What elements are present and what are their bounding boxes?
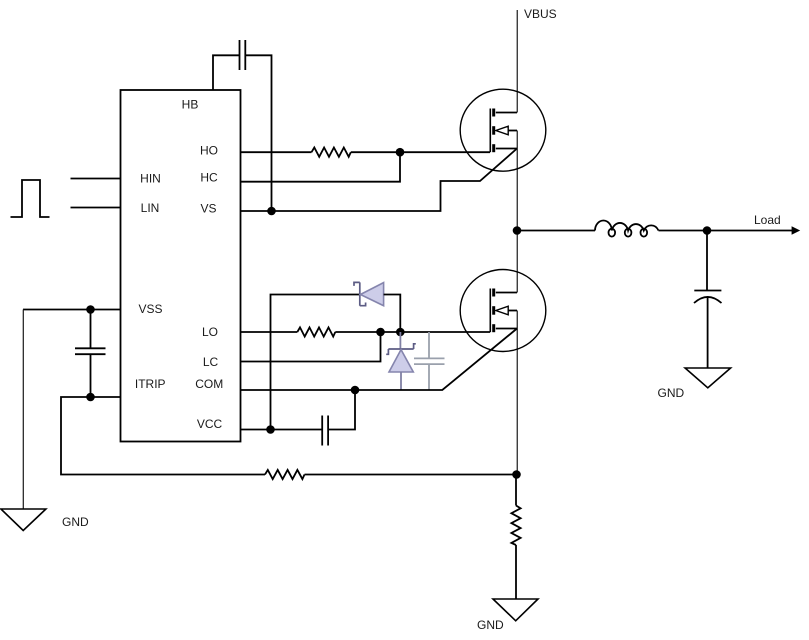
ground symbol left: [1, 509, 46, 531]
svg-text:HO: HO: [200, 143, 218, 157]
svg-text:HIN: HIN: [140, 171, 161, 185]
node half-bridge output junction: [513, 226, 522, 235]
wire VSS to ground left (gray): [22, 310, 24, 510]
wire COM to Q2 source: [241, 329, 518, 391]
wire gate resistor to Q2 gate: [335, 331, 490, 333]
transistor Q1 high-side MOSFET: [460, 89, 546, 171]
node COM junction: [351, 386, 360, 395]
resistor R4 shunt: [511, 506, 520, 546]
wire output capacitor to ground: [707, 297, 709, 368]
inductor L1: [595, 221, 659, 237]
wire inductor to load node: [659, 230, 708, 232]
wire HB to bootstrap capacitor: [213, 55, 240, 90]
wire HO to gate resistor: [241, 151, 312, 153]
svg-text:ITRIP: ITRIP: [135, 377, 166, 391]
capacitor C5 VSS filter: [75, 348, 106, 354]
wire HC to HO junction: [241, 152, 401, 182]
svg-text:COM: COM: [195, 377, 223, 391]
capacitor C3 snubber (gray): [414, 332, 445, 390]
resistor R3 current sense feed: [265, 470, 305, 479]
node LO-LC junction: [376, 328, 385, 337]
wire VCC capacitor to COM junction: [328, 390, 355, 430]
wire load node to output capacitor: [706, 231, 708, 291]
svg-text:GND: GND: [477, 618, 504, 632]
wire sense resistor to shunt node: [305, 474, 518, 476]
node shunt junction: [512, 470, 521, 479]
wire LC to LO junction: [241, 332, 381, 362]
resistor R2 low-side gate: [297, 327, 335, 336]
wire shunt node to resistor R4: [515, 475, 517, 506]
transistor Q2 low-side MOSFET: [460, 270, 546, 352]
svg-text:VCC: VCC: [197, 417, 223, 431]
wire bootstrap capacitor to VS: [245, 55, 271, 211]
svg-text:HC: HC: [200, 170, 218, 184]
wire VS to Q1 source: [241, 149, 518, 212]
diode D1 zener clamp: [354, 282, 384, 305]
capacitor C2 output (polarized): [694, 291, 722, 304]
diode D2 zener gate clamp: [386, 332, 416, 390]
svg-text:VS: VS: [200, 202, 216, 216]
ground symbol right: [685, 368, 731, 388]
wire VSS pin: [23, 309, 121, 311]
svg-text:LO: LO: [202, 325, 218, 339]
wire HIN input: [71, 178, 121, 180]
wire LO to gate resistor: [241, 331, 298, 333]
node HO-HC junction: [396, 148, 405, 157]
svg-text:GND: GND: [62, 515, 89, 529]
wire gate resistor to Q1 gate: [351, 151, 490, 153]
node VSS junction: [86, 305, 95, 314]
wire zener D1 to LO junction: [384, 295, 401, 333]
svg-text:HB: HB: [182, 98, 199, 112]
capacitor C4 VCC decoupling: [322, 416, 328, 446]
resistor R1 high-side gate: [312, 148, 351, 157]
wire VCC junction to zener D1: [271, 295, 360, 430]
IC U1 gate driver body: [121, 90, 241, 442]
node ITRIP junction: [86, 393, 95, 402]
svg-text:VSS: VSS: [138, 302, 162, 316]
node VS junction: [267, 207, 276, 216]
wire ITRIP to sense resistor: [61, 397, 265, 475]
node load junction: [703, 226, 712, 235]
VBUS net vertical wire: [516, 10, 518, 475]
svg-text:GND: GND: [658, 386, 685, 400]
capacitor C1 bootstrap: [240, 40, 246, 70]
wire resistor R4 to ground: [515, 545, 517, 599]
wire capacitor C5 to ITRIP wire: [90, 354, 92, 397]
input pulse waveform symbol: [11, 180, 50, 217]
wire output node to inductor: [517, 230, 595, 232]
wire load arrow: [707, 230, 792, 232]
wire LIN input: [71, 207, 121, 209]
node VCC junction: [266, 425, 275, 434]
node LO-zener junction: [396, 328, 405, 337]
wire VSS junction to capacitor C5: [90, 310, 92, 349]
svg-text:VBUS: VBUS: [524, 7, 557, 21]
svg-text:Load: Load: [754, 213, 781, 227]
svg-text:LIN: LIN: [141, 201, 160, 215]
ground symbol bottom: [493, 599, 538, 621]
svg-text:LC: LC: [203, 355, 219, 369]
wire VCC pin: [241, 429, 323, 431]
